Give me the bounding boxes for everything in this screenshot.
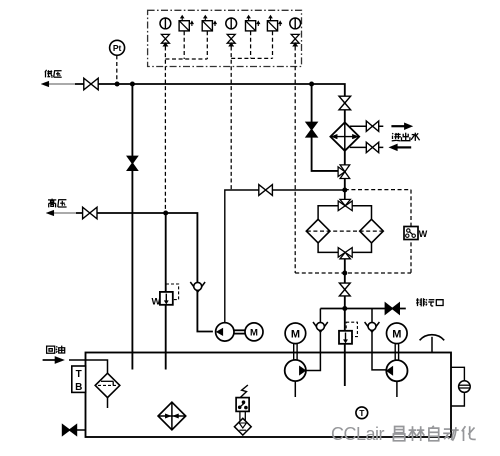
svg-text:W: W: [419, 229, 428, 239]
svg-text:M: M: [250, 327, 258, 338]
svg-text:CCLair: CCLair: [331, 424, 385, 444]
svg-text:B: B: [75, 382, 82, 393]
svg-text:W: W: [152, 296, 161, 307]
svg-text:T: T: [359, 408, 365, 418]
svg-text:M: M: [291, 328, 300, 340]
svg-text:T: T: [76, 369, 82, 380]
svg-text:M: M: [392, 328, 401, 340]
svg-text:Pt: Pt: [113, 43, 122, 53]
